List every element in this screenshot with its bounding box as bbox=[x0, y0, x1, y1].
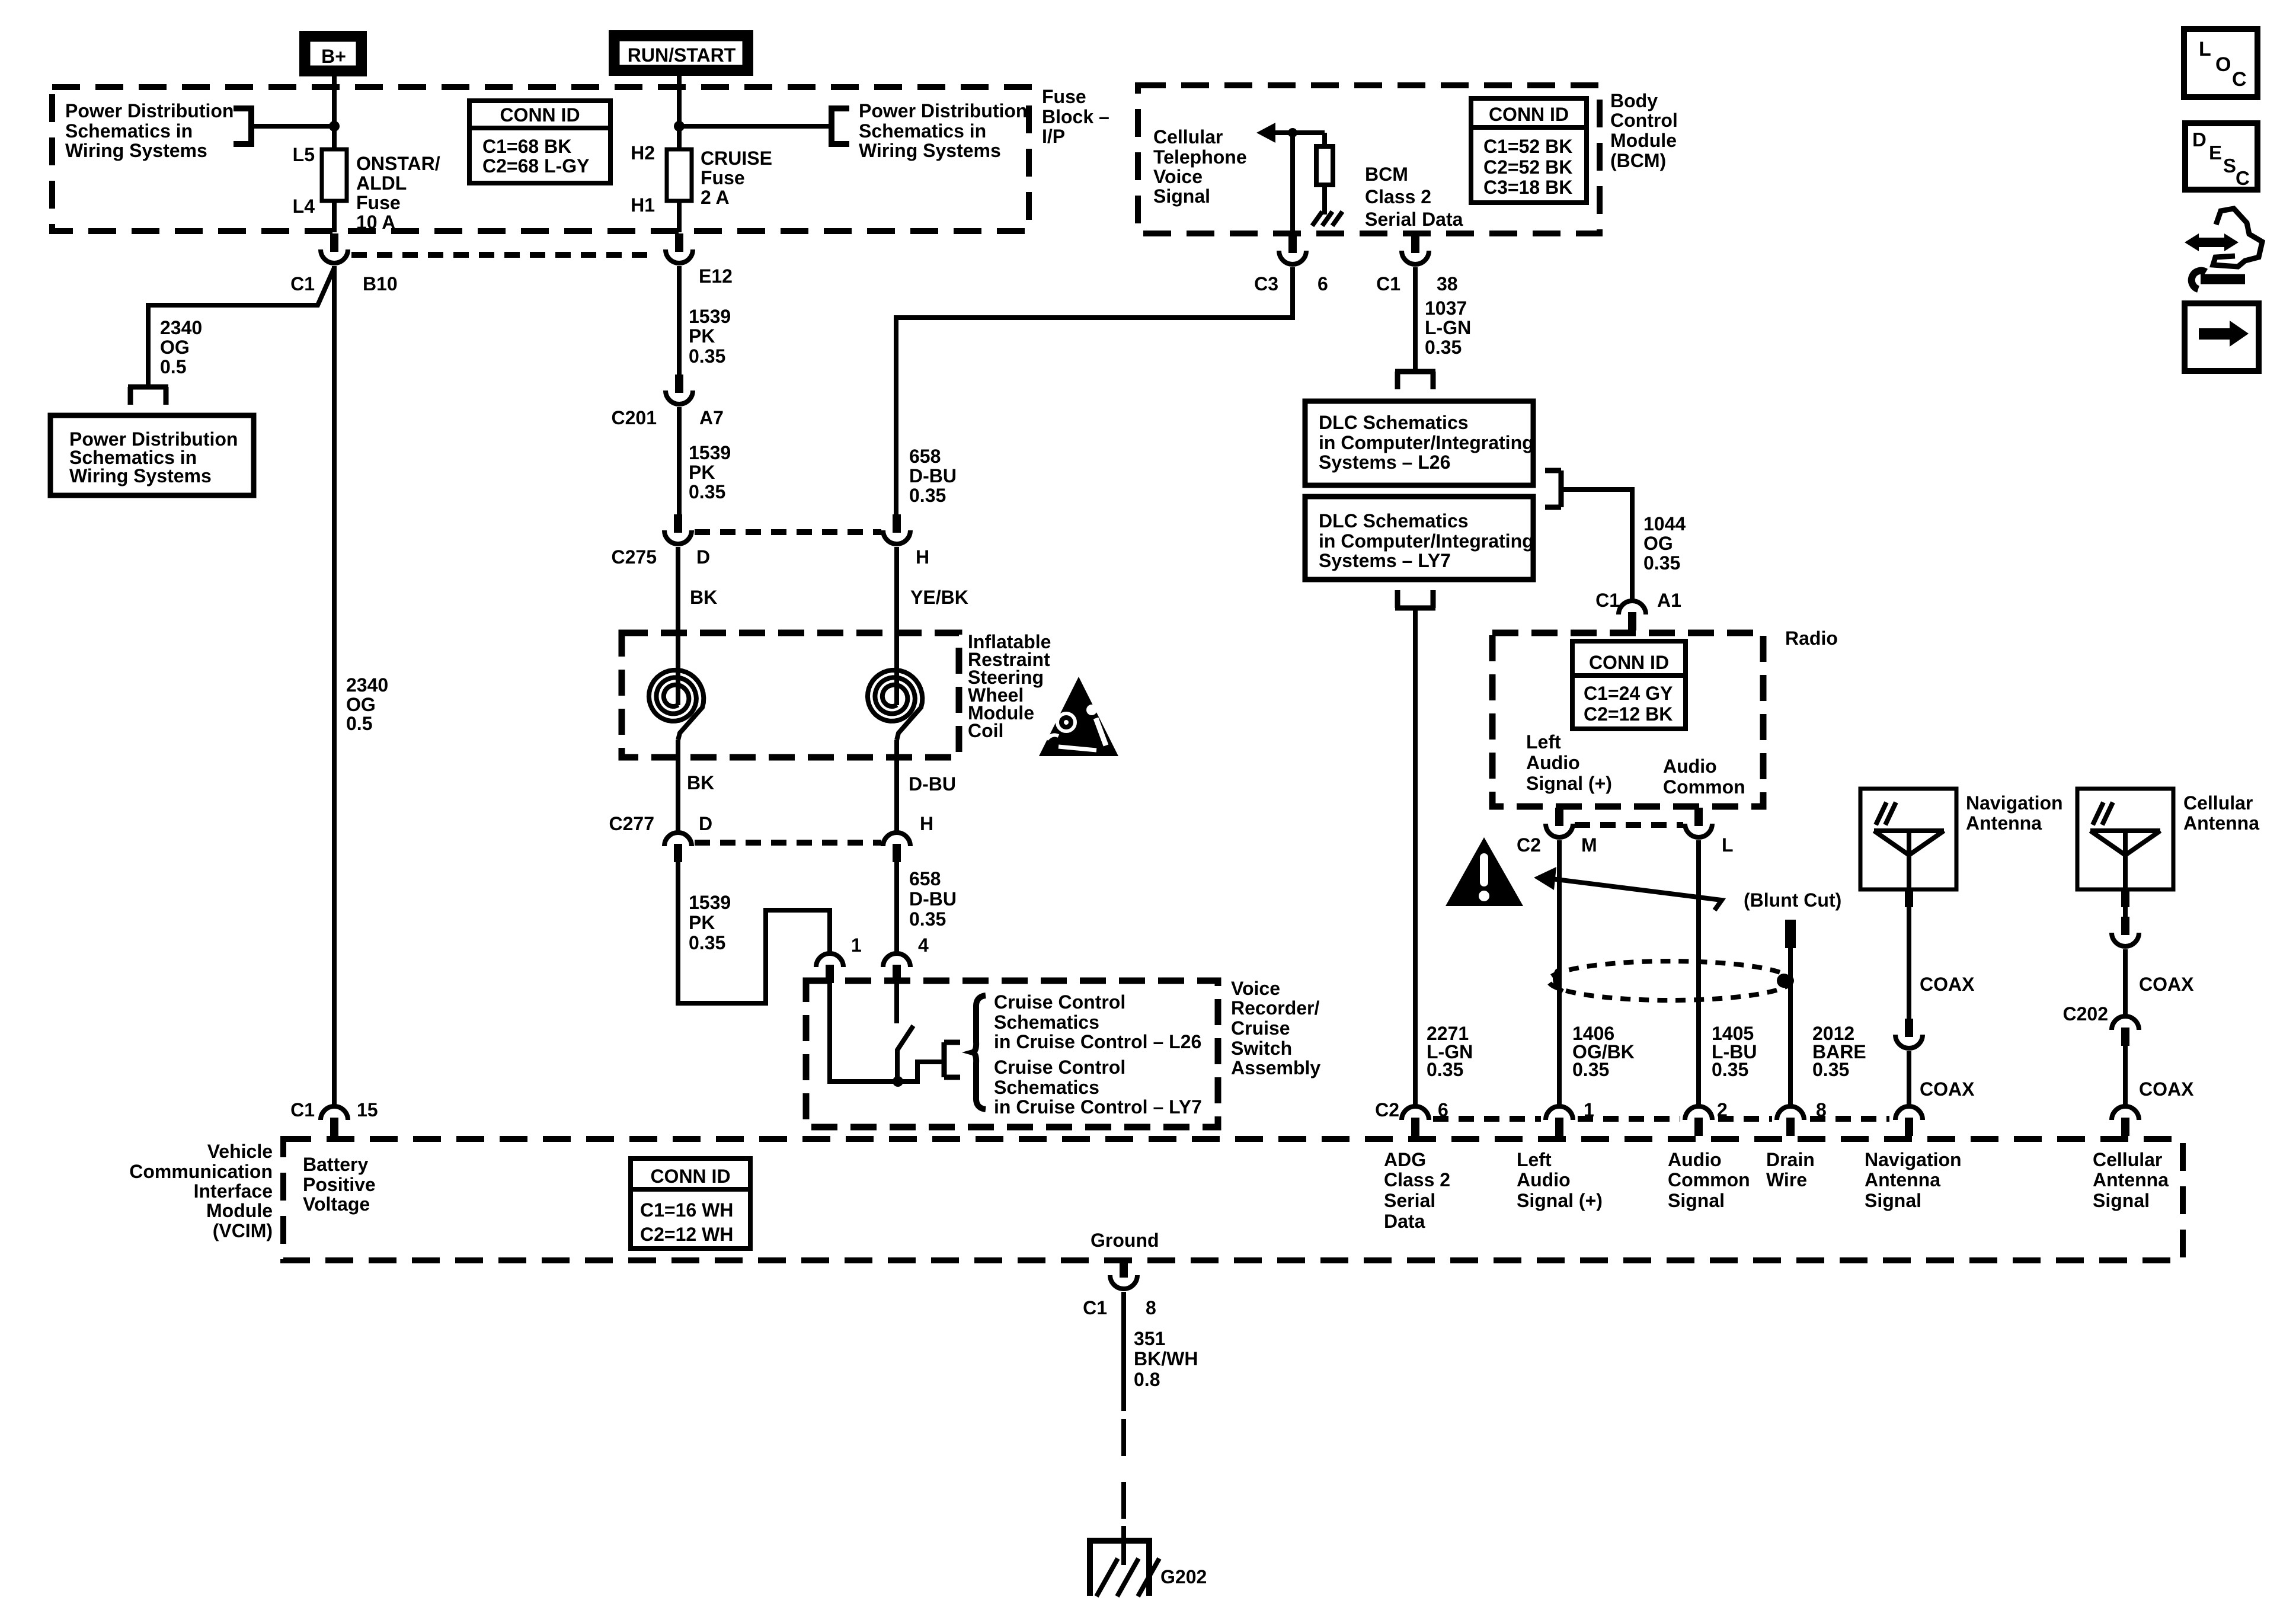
connector row radio C2 dashed bbox=[1575, 822, 1683, 828]
svg-text:CONN ID: CONN ID bbox=[650, 1166, 730, 1187]
svg-text:A7: A7 bbox=[699, 407, 724, 428]
svg-text:C1=68 BK: C1=68 BK bbox=[482, 136, 571, 157]
connector row C275 dashed bbox=[695, 529, 881, 535]
svg-text:4: 4 bbox=[918, 934, 929, 956]
svg-text:Schematics: Schematics bbox=[994, 1012, 1099, 1033]
label wire 2340 OG 0.5 lower bbox=[346, 674, 388, 734]
svg-text:Navigation: Navigation bbox=[1966, 792, 2063, 814]
svg-text:0.35: 0.35 bbox=[1812, 1059, 1849, 1080]
svg-text:Antenna: Antenna bbox=[2183, 812, 2259, 834]
svg-text:D-BU: D-BU bbox=[909, 773, 956, 795]
label wire 658 D-BU 0.35 upper bbox=[909, 446, 957, 506]
svg-text:ONSTAR/: ONSTAR/ bbox=[356, 153, 440, 174]
wire 1405 vertical bbox=[1696, 840, 1701, 1108]
label wire 1406 OG/BK 0.35 bbox=[1572, 1023, 1635, 1080]
svg-text:COAX: COAX bbox=[1920, 974, 1975, 995]
svg-text:BK: BK bbox=[687, 772, 714, 793]
svg-text:0.35: 0.35 bbox=[689, 345, 725, 367]
svg-text:0.35: 0.35 bbox=[689, 932, 725, 953]
VCIM dashed box bbox=[283, 1139, 2183, 1260]
label Blunt Cut bbox=[1744, 889, 1841, 911]
switch blade bbox=[897, 1026, 913, 1081]
svg-text:Wiring Systems: Wiring Systems bbox=[69, 465, 212, 486]
wire RUN/START to bracket bbox=[679, 124, 832, 129]
svg-text:Systems – LY7: Systems – LY7 bbox=[1319, 550, 1451, 571]
connector nav VCIM bbox=[1895, 1106, 1923, 1136]
svg-text:C202: C202 bbox=[2063, 1003, 2109, 1025]
svg-text:C1: C1 bbox=[290, 1099, 315, 1121]
svg-text:PK: PK bbox=[689, 325, 715, 347]
svg-text:Signal: Signal bbox=[1668, 1190, 1725, 1211]
svg-text:L: L bbox=[1722, 834, 1734, 856]
svg-text:0.35: 0.35 bbox=[1712, 1059, 1748, 1080]
svg-text:C2: C2 bbox=[1517, 834, 1541, 856]
svg-text:OG: OG bbox=[346, 694, 376, 715]
svg-text:C3=18 BK: C3=18 BK bbox=[1483, 177, 1572, 198]
bracket to Power Distribution middle bbox=[832, 108, 849, 144]
connector row VCIM dashed bbox=[1433, 1116, 1889, 1122]
icon next arrow box bbox=[2185, 303, 2259, 371]
bracket to Power Distribution left bbox=[234, 108, 251, 144]
svg-text:0.35: 0.35 bbox=[1572, 1059, 1609, 1080]
label ADG Class 2 Serial Data bbox=[1384, 1149, 1450, 1232]
svg-text:Common: Common bbox=[1663, 776, 1745, 798]
svg-text:Interface: Interface bbox=[194, 1180, 273, 1202]
label COAX cell lower bbox=[2139, 1078, 2194, 1100]
svg-text:Voice: Voice bbox=[1153, 166, 1203, 187]
BCM dashed box bbox=[1138, 85, 1600, 233]
svg-text:C2=68 L-GY: C2=68 L-GY bbox=[482, 155, 590, 177]
radio dashed box bbox=[1492, 633, 1763, 806]
wire RUN/START vertical bbox=[677, 75, 682, 151]
svg-text:PK: PK bbox=[689, 462, 715, 483]
svg-text:Fuse: Fuse bbox=[701, 167, 745, 188]
svg-text:Fuse: Fuse bbox=[1042, 86, 1086, 107]
svg-text:Cruise Control: Cruise Control bbox=[994, 1057, 1125, 1078]
svg-text:H2: H2 bbox=[631, 142, 655, 164]
svg-text:C1=16 WH: C1=16 WH bbox=[640, 1199, 733, 1221]
brace cruise references bbox=[973, 996, 986, 1109]
connector C2 6 bbox=[1375, 1099, 1448, 1136]
svg-text:0.35: 0.35 bbox=[1643, 552, 1680, 574]
svg-text:ALDL: ALDL bbox=[356, 172, 407, 194]
svg-text:A1: A1 bbox=[1657, 590, 1681, 611]
bracket DLC join bbox=[1545, 470, 1561, 507]
svg-text:L: L bbox=[2199, 38, 2211, 60]
svg-text:B10: B10 bbox=[363, 273, 398, 295]
label wire 2012 BARE 0.35 bbox=[1812, 1023, 1866, 1080]
svg-text:C201: C201 bbox=[612, 407, 657, 428]
label Audio Common bbox=[1663, 756, 1745, 798]
ref box DLC Schematics LY7 bbox=[1305, 497, 1534, 580]
label BCM Class 2 Serial Data bbox=[1365, 164, 1463, 230]
label wire 1539 PK 0.35 third bbox=[689, 892, 731, 953]
svg-text:2: 2 bbox=[1717, 1099, 1728, 1121]
label wire BK upper bbox=[690, 587, 717, 608]
junction B+ node bbox=[329, 121, 340, 132]
svg-text:Signal: Signal bbox=[2093, 1190, 2150, 1211]
warning triangle exclamation bbox=[1446, 837, 1523, 906]
svg-text:Class 2: Class 2 bbox=[1365, 186, 1431, 207]
svg-text:Antenna: Antenna bbox=[2093, 1169, 2169, 1190]
svg-text:2340: 2340 bbox=[160, 317, 202, 338]
svg-text:Wire: Wire bbox=[1766, 1169, 1807, 1190]
svg-text:0.35: 0.35 bbox=[1427, 1059, 1463, 1080]
power feed label RUN/START bbox=[613, 34, 749, 72]
connector C202 bbox=[2112, 1016, 2139, 1046]
resistor BCM terminator bbox=[1316, 133, 1333, 215]
label wire 351 BK/WH 0.8 bbox=[1134, 1328, 1198, 1390]
svg-text:O: O bbox=[2215, 53, 2231, 76]
svg-text:658: 658 bbox=[909, 446, 941, 467]
label wire 2271 L-GN 0.35 bbox=[1427, 1023, 1473, 1080]
junction BCM node bbox=[1288, 128, 1297, 137]
label wire 1405 L-BU 0.35 bbox=[1712, 1023, 1757, 1080]
svg-text:Schematics in: Schematics in bbox=[859, 120, 986, 142]
wire switch bottom bbox=[827, 1079, 917, 1084]
connector C277 H bbox=[883, 813, 933, 862]
svg-text:L4: L4 bbox=[293, 196, 315, 217]
svg-text:COAX: COAX bbox=[2139, 974, 2194, 995]
svg-text:D: D bbox=[699, 813, 712, 834]
label Left Audio Signal bbox=[1526, 731, 1612, 794]
svg-text:D-BU: D-BU bbox=[909, 465, 957, 486]
label C202 bbox=[2063, 1003, 2109, 1025]
ground symbol G202 bbox=[1087, 1541, 1207, 1596]
svg-text:0.35: 0.35 bbox=[909, 908, 946, 930]
svg-text:BK/WH: BK/WH bbox=[1134, 1348, 1198, 1369]
wire into coil right bbox=[894, 547, 899, 705]
label wire 2340 OG 0.5 upper bbox=[160, 317, 202, 377]
svg-text:(Blunt Cut): (Blunt Cut) bbox=[1744, 889, 1841, 911]
label Voice Recorder Cruise Switch Assembly bbox=[1231, 978, 1320, 1078]
connector pin 4 bbox=[883, 934, 929, 983]
connector C3 6 bbox=[1254, 235, 1328, 295]
fuse CRUISE bbox=[631, 142, 772, 216]
svg-text:H: H bbox=[916, 546, 929, 568]
wire 1539 E12 to C201 bbox=[677, 266, 682, 376]
wire 1037 vertical bbox=[1413, 267, 1418, 370]
svg-text:Navigation: Navigation bbox=[1865, 1149, 1962, 1170]
wire 351 dashed bbox=[1121, 1419, 1126, 1526]
icon repair arrow wrench bbox=[2185, 209, 2262, 289]
svg-text:Signal (+): Signal (+) bbox=[1517, 1190, 1603, 1211]
junction drain ellipse dot bbox=[1777, 974, 1791, 988]
label wire YE/BK bbox=[910, 587, 968, 608]
CONN ID fuse block bbox=[469, 101, 610, 183]
svg-text:658: 658 bbox=[909, 868, 941, 889]
connector C1 38 bbox=[1376, 235, 1458, 295]
coil module dashed box bbox=[622, 633, 959, 757]
label Left Audio Signal VCIM bbox=[1517, 1149, 1603, 1211]
label wire 1037 L-GN 0.35 bbox=[1425, 297, 1471, 358]
svg-text:L-GN: L-GN bbox=[1425, 317, 1471, 338]
connector radio C2 M bbox=[1517, 808, 1597, 856]
svg-text:Left: Left bbox=[1526, 731, 1561, 753]
coil spiral left bbox=[649, 670, 703, 740]
wire nav coax upper bbox=[1905, 889, 1913, 1020]
svg-text:H: H bbox=[920, 813, 933, 834]
bracket cruise off-page bbox=[944, 1042, 960, 1077]
svg-text:Positive: Positive bbox=[303, 1174, 376, 1195]
fuse ONSTAR/ALDL bbox=[293, 144, 440, 233]
svg-text:0.35: 0.35 bbox=[1425, 337, 1462, 358]
svg-text:C: C bbox=[2236, 167, 2250, 189]
svg-text:C277: C277 bbox=[609, 813, 655, 834]
connector C275 D bbox=[612, 514, 711, 568]
label wire D-BU lower bbox=[909, 773, 956, 795]
svg-text:H1: H1 bbox=[631, 194, 655, 216]
svg-text:C275: C275 bbox=[612, 546, 657, 568]
svg-text:Module: Module bbox=[206, 1200, 273, 1221]
svg-text:C2=12 BK: C2=12 BK bbox=[1584, 703, 1673, 725]
svg-text:CRUISE: CRUISE bbox=[701, 148, 772, 169]
warning triangle airbag bbox=[1039, 677, 1118, 756]
svg-text:Cruise: Cruise bbox=[1231, 1017, 1290, 1039]
svg-text:Control: Control bbox=[1610, 110, 1678, 131]
svg-text:BCM: BCM bbox=[1365, 164, 1408, 185]
wire out of coil right bbox=[894, 740, 899, 833]
svg-text:C1=52 BK: C1=52 BK bbox=[1483, 136, 1572, 157]
svg-text:CONN ID: CONN ID bbox=[1589, 652, 1669, 673]
svg-text:Fuse: Fuse bbox=[356, 192, 401, 213]
label wire 1539 PK 0.35 second bbox=[689, 442, 731, 502]
svg-text:COAX: COAX bbox=[2139, 1078, 2194, 1100]
svg-text:ADG: ADG bbox=[1384, 1149, 1426, 1170]
svg-text:C1: C1 bbox=[290, 273, 315, 295]
svg-text:G202: G202 bbox=[1160, 1566, 1207, 1587]
connector cell inline bbox=[2112, 917, 2139, 946]
svg-text:Block –: Block – bbox=[1042, 106, 1109, 127]
svg-text:0.5: 0.5 bbox=[160, 356, 186, 377]
svg-text:Serial Data: Serial Data bbox=[1365, 209, 1463, 230]
twisted pair ellipse bbox=[1549, 961, 1792, 1000]
svg-text:(VCIM): (VCIM) bbox=[213, 1220, 273, 1241]
connector C277 D bbox=[609, 813, 713, 862]
wire 2340 long vertical bbox=[332, 266, 337, 1108]
svg-text:1037: 1037 bbox=[1425, 297, 1467, 319]
svg-text:Left: Left bbox=[1517, 1149, 1552, 1170]
icon LOC box bbox=[2184, 29, 2257, 97]
connector pin 1 VCIM bbox=[1546, 1099, 1594, 1136]
connector C1 A1 radio bbox=[1595, 590, 1681, 630]
svg-text:Cruise Control: Cruise Control bbox=[994, 991, 1125, 1013]
wire 2271 vertical bbox=[1413, 610, 1418, 1108]
label Radio bbox=[1785, 628, 1838, 649]
svg-text:Drain: Drain bbox=[1766, 1149, 1815, 1170]
label wire 1539 PK 0.35 first bbox=[689, 306, 731, 367]
svg-text:Data: Data bbox=[1384, 1211, 1425, 1232]
coil spiral right bbox=[868, 670, 922, 740]
wire 351 to ground bbox=[1121, 1526, 1126, 1565]
voice recorder cruise switch dashed box bbox=[806, 981, 1218, 1127]
ref box DLC Schematics L26 bbox=[1305, 401, 1534, 485]
svg-text:Body: Body bbox=[1610, 90, 1658, 111]
CONN ID VCIM bbox=[631, 1158, 750, 1249]
svg-text:RUN/START: RUN/START bbox=[628, 44, 736, 66]
wire out of coil left bbox=[676, 740, 680, 833]
svg-text:Radio: Radio bbox=[1785, 628, 1838, 649]
svg-text:351: 351 bbox=[1134, 1328, 1165, 1349]
connector radio C2 L bbox=[1685, 808, 1734, 856]
svg-text:Serial: Serial bbox=[1384, 1190, 1435, 1211]
svg-text:in Computer/Integrating: in Computer/Integrating bbox=[1319, 432, 1534, 453]
svg-text:D: D bbox=[2192, 129, 2207, 151]
svg-text:CONN ID: CONN ID bbox=[1489, 104, 1569, 125]
svg-text:E: E bbox=[2209, 142, 2222, 164]
svg-text:38: 38 bbox=[1437, 273, 1458, 295]
ref box Power Distribution Schematics bbox=[50, 415, 254, 495]
svg-text:Antenna: Antenna bbox=[1865, 1169, 1940, 1190]
wire B+ to bracket bbox=[251, 124, 334, 129]
svg-text:15: 15 bbox=[357, 1099, 378, 1121]
connector C1 B10 bbox=[290, 233, 398, 295]
svg-text:Cellular: Cellular bbox=[2183, 792, 2253, 814]
svg-text:Vehicle: Vehicle bbox=[207, 1141, 273, 1162]
label Vehicle Communication Interface Module bbox=[129, 1141, 273, 1241]
wire B+ vertical bbox=[332, 75, 337, 151]
wire 2340 branch diagonal bbox=[148, 268, 334, 385]
svg-text:C: C bbox=[2232, 68, 2247, 91]
svg-text:Wiring Systems: Wiring Systems bbox=[859, 140, 1001, 161]
label wire 1044 OG 0.35 bbox=[1643, 513, 1686, 574]
svg-text:I/P: I/P bbox=[1042, 126, 1065, 147]
svg-text:(BCM): (BCM) bbox=[1610, 150, 1666, 171]
label wire BK lower bbox=[687, 772, 714, 793]
svg-text:Audio: Audio bbox=[1526, 752, 1580, 773]
navigation antenna box bbox=[1860, 789, 2063, 889]
cellular antenna box bbox=[2077, 789, 2259, 889]
svg-text:0.5: 0.5 bbox=[346, 713, 372, 734]
junction RUN/START node bbox=[674, 121, 685, 132]
svg-text:Cellular: Cellular bbox=[2093, 1149, 2162, 1170]
wire 1044 to radio bbox=[1561, 489, 1632, 602]
svg-text:1539: 1539 bbox=[689, 306, 731, 327]
off-page bracket to power dist box bbox=[128, 387, 168, 405]
svg-text:Signal (+): Signal (+) bbox=[1526, 773, 1612, 794]
svg-text:Antenna: Antenna bbox=[1966, 812, 2042, 834]
wire 1406 vertical bbox=[1557, 840, 1562, 1108]
icon DESC box bbox=[2185, 123, 2257, 190]
svg-text:2340: 2340 bbox=[346, 674, 388, 696]
svg-text:Assembly: Assembly bbox=[1231, 1057, 1320, 1078]
svg-text:1044: 1044 bbox=[1643, 513, 1686, 534]
svg-text:Module: Module bbox=[1610, 130, 1677, 151]
label Cellular Telephone Voice Signal bbox=[1153, 126, 1247, 207]
wire switch to bracket bbox=[917, 1062, 946, 1084]
svg-text:Cellular: Cellular bbox=[1153, 126, 1223, 148]
svg-text:in Cruise Control – L26: in Cruise Control – L26 bbox=[994, 1031, 1201, 1052]
junction switch node bbox=[893, 1076, 903, 1087]
svg-text:6: 6 bbox=[1438, 1099, 1448, 1121]
svg-text:BK: BK bbox=[690, 587, 717, 608]
wire fuse to connector C1 B10 bbox=[332, 201, 337, 232]
off-page bracket DLC L26 bbox=[1395, 372, 1435, 389]
wire 1539 jog to pin 1 bbox=[678, 861, 830, 1003]
wire cell coax upper bbox=[2121, 889, 2129, 918]
wire 658 from C3 bbox=[896, 267, 1293, 516]
label Inflatable Restraint text bbox=[968, 631, 1051, 741]
svg-text:Power Distribution: Power Distribution bbox=[65, 100, 234, 121]
svg-text:0.35: 0.35 bbox=[689, 481, 725, 502]
svg-text:1: 1 bbox=[851, 934, 862, 956]
wire pin 4 down bbox=[894, 983, 899, 1023]
connector C1 8 ground bbox=[1083, 1259, 1156, 1318]
wire CRUISE fuse to E12 bbox=[677, 201, 682, 232]
svg-text:0.35: 0.35 bbox=[909, 485, 946, 506]
svg-text:8: 8 bbox=[1816, 1099, 1827, 1121]
arrow cellular voice bbox=[1256, 123, 1325, 143]
svg-text:Class 2: Class 2 bbox=[1384, 1169, 1450, 1190]
svg-text:Battery: Battery bbox=[303, 1154, 368, 1175]
wire nav coax lower bbox=[1907, 1051, 1911, 1108]
chassis ground BCM bbox=[1312, 212, 1342, 226]
svg-text:D-BU: D-BU bbox=[909, 888, 957, 910]
connector cell VCIM bbox=[2112, 1106, 2139, 1136]
svg-text:M: M bbox=[1581, 834, 1597, 856]
label Fuse Block I/P bbox=[1042, 86, 1109, 147]
svg-text:0.8: 0.8 bbox=[1134, 1369, 1160, 1390]
svg-text:D: D bbox=[696, 546, 710, 568]
svg-text:CONN ID: CONN ID bbox=[500, 104, 580, 126]
wire 2012 drain vertical bbox=[1788, 948, 1793, 1108]
fuse block I/P dashed box bbox=[52, 87, 1029, 231]
connector pin 1 bbox=[816, 934, 862, 983]
svg-text:Recorder/: Recorder/ bbox=[1231, 997, 1320, 1019]
label wire 658 D-BU 0.35 lower bbox=[909, 868, 957, 930]
power feed label B+ bbox=[303, 35, 363, 72]
svg-text:C2=52 BK: C2=52 BK bbox=[1483, 156, 1572, 178]
svg-text:L5: L5 bbox=[293, 144, 315, 165]
svg-text:YE/BK: YE/BK bbox=[910, 587, 968, 608]
svg-text:1539: 1539 bbox=[689, 892, 731, 913]
wire 1539 C201 to C275 bbox=[677, 407, 682, 516]
ref text Power Distribution middle bbox=[859, 100, 1027, 161]
svg-text:OG: OG bbox=[1643, 533, 1673, 554]
wire 351 solid bbox=[1121, 1292, 1126, 1411]
svg-text:Signal: Signal bbox=[1153, 185, 1210, 207]
svg-text:2 A: 2 A bbox=[701, 187, 730, 208]
svg-text:C1: C1 bbox=[1595, 590, 1620, 611]
ref text Cruise Control LY7 bbox=[994, 1057, 1202, 1118]
label Audio Common Signal bbox=[1668, 1149, 1750, 1211]
label COAX nav lower bbox=[1920, 1078, 1975, 1100]
svg-text:C1: C1 bbox=[1083, 1297, 1107, 1318]
svg-text:C2=12 WH: C2=12 WH bbox=[640, 1224, 733, 1245]
svg-text:8: 8 bbox=[1146, 1297, 1156, 1318]
connector row C277 dashed bbox=[695, 840, 881, 846]
svg-text:Audio: Audio bbox=[1517, 1169, 1571, 1190]
label Body Control Module bbox=[1610, 90, 1678, 171]
label COAX cell upper bbox=[2139, 974, 2194, 995]
wire cell coax middle bbox=[2123, 949, 2128, 1015]
svg-text:in Computer/Integrating: in Computer/Integrating bbox=[1319, 530, 1534, 552]
off-page bracket DLC LY7 bbox=[1395, 590, 1435, 608]
svg-text:C1: C1 bbox=[1376, 273, 1400, 295]
ref text Cruise Control L26 bbox=[994, 991, 1201, 1052]
CONN ID BCM bbox=[1471, 98, 1587, 203]
connector pin 8 VCIM bbox=[1777, 1099, 1827, 1136]
svg-text:DLC Schematics: DLC Schematics bbox=[1319, 412, 1469, 433]
connector E12 bbox=[666, 233, 733, 287]
svg-text:B+: B+ bbox=[321, 46, 346, 67]
label Drain Wire bbox=[1766, 1149, 1815, 1190]
svg-text:C1=24 GY: C1=24 GY bbox=[1584, 683, 1673, 704]
wire BCM C3 vertical bbox=[1290, 133, 1295, 233]
svg-text:Ground: Ground bbox=[1091, 1230, 1159, 1251]
connector nav inline bbox=[1895, 1019, 1923, 1048]
ref text Power Distribution left bbox=[65, 100, 234, 161]
